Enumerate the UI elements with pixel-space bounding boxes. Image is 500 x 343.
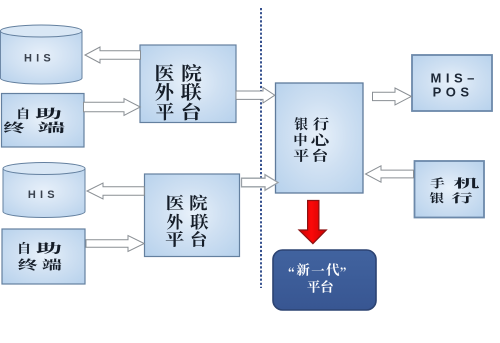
box 医院外联平台 (bottom) — [145, 174, 240, 257]
label 自助终端 (top) — [4, 108, 65, 134]
cylinder HIS (top) — [0, 25, 82, 84]
label 医院外联平台 (top) — [155, 64, 201, 120]
dashed separator line — [260, 8, 262, 288]
arrow 医院外联平台(bottom) to HIS(bottom) — [87, 183, 144, 199]
box 自助终端 (bottom) — [2, 229, 85, 284]
box 银行中心平台 — [276, 83, 364, 193]
red arrow 银行中心平台 to 新一代平台 — [299, 201, 326, 244]
arrow 自助终端(top) to 医院外联平台(top) — [84, 99, 141, 116]
box MIS-POS — [412, 55, 492, 111]
arrow 医院外联平台(bottom) to 银行中心平台 — [242, 175, 279, 191]
label 自助终端 (bottom) — [18, 242, 61, 271]
label 新一代平台 — [289, 263, 346, 293]
box 手机银行 — [415, 161, 485, 218]
box 医院外联平台 (top) — [140, 45, 236, 123]
box 自助终端 (top) — [2, 94, 85, 148]
label 银行中心平台 — [294, 117, 329, 162]
arrow 手机银行 to 银行中心平台 — [366, 166, 414, 182]
arrow 医院外联平台(top) to 银行中心平台 — [236, 87, 275, 103]
arrow 医院外联平台(top) to HIS(top) — [85, 47, 141, 63]
svg-text:MIS–: MIS– — [431, 70, 479, 85]
label 医院外联平台 (bottom) — [166, 195, 209, 247]
arrow 银行中心平台 to MIS-POS — [373, 88, 412, 105]
svg-text:POS: POS — [433, 84, 474, 99]
box 新一代平台 — [273, 250, 376, 310]
label 手机银行 — [430, 177, 479, 203]
svg-text:HIS: HIS — [28, 189, 59, 201]
svg-text:HIS: HIS — [24, 52, 55, 64]
arrow 自助终端(bottom) to 医院外联平台(bottom) — [86, 236, 144, 252]
cylinder HIS (bottom) — [3, 163, 85, 218]
